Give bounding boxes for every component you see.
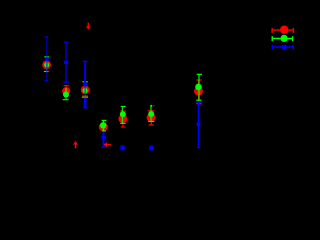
data point 3: blue error-bar mid section [84,86,86,97]
data point 2: red error bar [64,86,70,90]
data point 3: red error-bar bottom cap [82,95,88,97]
data point 5: green circle marker [120,111,126,117]
data point 3: green error-bar bottom cap [82,96,88,98]
data point 4: green error-bar bottom cap [102,130,106,132]
data point 4: red circle marker [99,123,108,132]
data point 7: blue error bar [195,102,202,148]
data point 3: green error-bar top cap [82,81,87,83]
data point 7: blue square marker [197,122,201,126]
red left arrow [104,142,111,147]
legend entry 2: green circle with horizontal error bar [272,35,293,42]
data point 6: green circle marker [148,111,154,117]
data point 3: blue error-bar upper section [83,61,88,83]
data point 1: green error bar [44,57,49,72]
data point 2: blue error bar [64,42,69,82]
data point 3: red circle marker [81,85,90,94]
data point 1: blue error bar [44,37,48,81]
data point 1: red circle marker [42,60,51,69]
data point 7: green circle marker [195,84,202,91]
red down arrow (upper limit) [86,23,90,30]
stray green dot [152,104,155,107]
data point 7: red circle marker [194,87,203,96]
data point 1: red error-bar cap [45,71,50,73]
data point 4: green error bar [102,120,107,130]
data point 3: green circle marker [83,88,88,93]
data point 1: green circle marker [44,62,49,67]
legend entry 3: blue square with horizontal error bar [272,45,293,50]
data point 2: green circle marker [63,92,69,98]
data point 6: red circle marker [147,113,156,122]
data point 5: blue error bar and square marker below [120,145,125,150]
legend entry 1: red circle with horizontal error bar [272,26,294,35]
data point 3: blue square marker [83,83,87,87]
data point 5: red circle marker [118,114,127,123]
data point 6: green error bar [148,105,154,122]
data point 2: blue square marker [64,61,68,64]
data point 5: red error bar [120,111,126,127]
data point 5: green error bar [120,107,125,124]
data point 7: green error bar [196,74,202,100]
data point 2: red circle marker [62,87,70,95]
red up arrow (lower limit) [73,141,78,148]
data point 3: blue error-bar lower section [83,98,88,108]
data point 6: blue error bar and square marker below [149,146,154,151]
data point 1: blue square marker [45,58,48,61]
data point 7: red error bar [196,80,201,104]
data point 4: green circle marker [100,122,106,128]
data point 4: blue error bar [101,132,105,148]
data point 6: red error bar [148,111,155,125]
data point 2: green error bar [63,88,69,100]
data point 4: blue square marker [102,136,106,139]
